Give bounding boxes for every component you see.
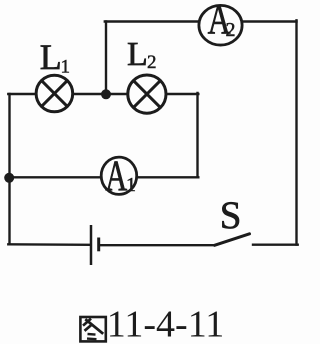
svg-text:1: 1 xyxy=(126,174,136,196)
wire lamp row horizontal xyxy=(8,93,198,95)
lamp L2 xyxy=(128,75,166,113)
caption glyph tu (figure) xyxy=(80,317,105,341)
battery short plate xyxy=(97,238,100,252)
node junction top dot xyxy=(101,89,111,99)
wire left vertical xyxy=(8,94,10,244)
lamp L1 xyxy=(36,75,73,112)
wire L2 branch drop xyxy=(196,93,198,177)
battery long plate xyxy=(90,225,93,265)
wire top horizontal xyxy=(105,20,297,22)
svg-text:2: 2 xyxy=(147,52,157,73)
wire riser junction to top xyxy=(105,22,107,95)
wire A1 row horizontal xyxy=(9,176,198,178)
wire battery to switch xyxy=(100,244,215,246)
label L2 xyxy=(127,36,157,73)
svg-text:L: L xyxy=(40,37,62,77)
svg-text:S: S xyxy=(220,194,242,237)
svg-text:1: 1 xyxy=(61,56,71,77)
svg-text:L: L xyxy=(127,36,148,73)
wire right vertical xyxy=(295,20,297,244)
ammeter A2 xyxy=(199,0,242,45)
wire bottom left to battery xyxy=(8,243,90,246)
svg-text:A: A xyxy=(105,153,127,200)
ammeter A1 xyxy=(101,153,137,200)
node junction left dot xyxy=(4,173,14,183)
wire bottom right segment xyxy=(253,243,298,245)
svg-text:2: 2 xyxy=(226,19,236,41)
switch S lever xyxy=(215,234,250,246)
svg-text:11-4-11: 11-4-11 xyxy=(107,304,225,344)
label L1 xyxy=(40,37,70,77)
